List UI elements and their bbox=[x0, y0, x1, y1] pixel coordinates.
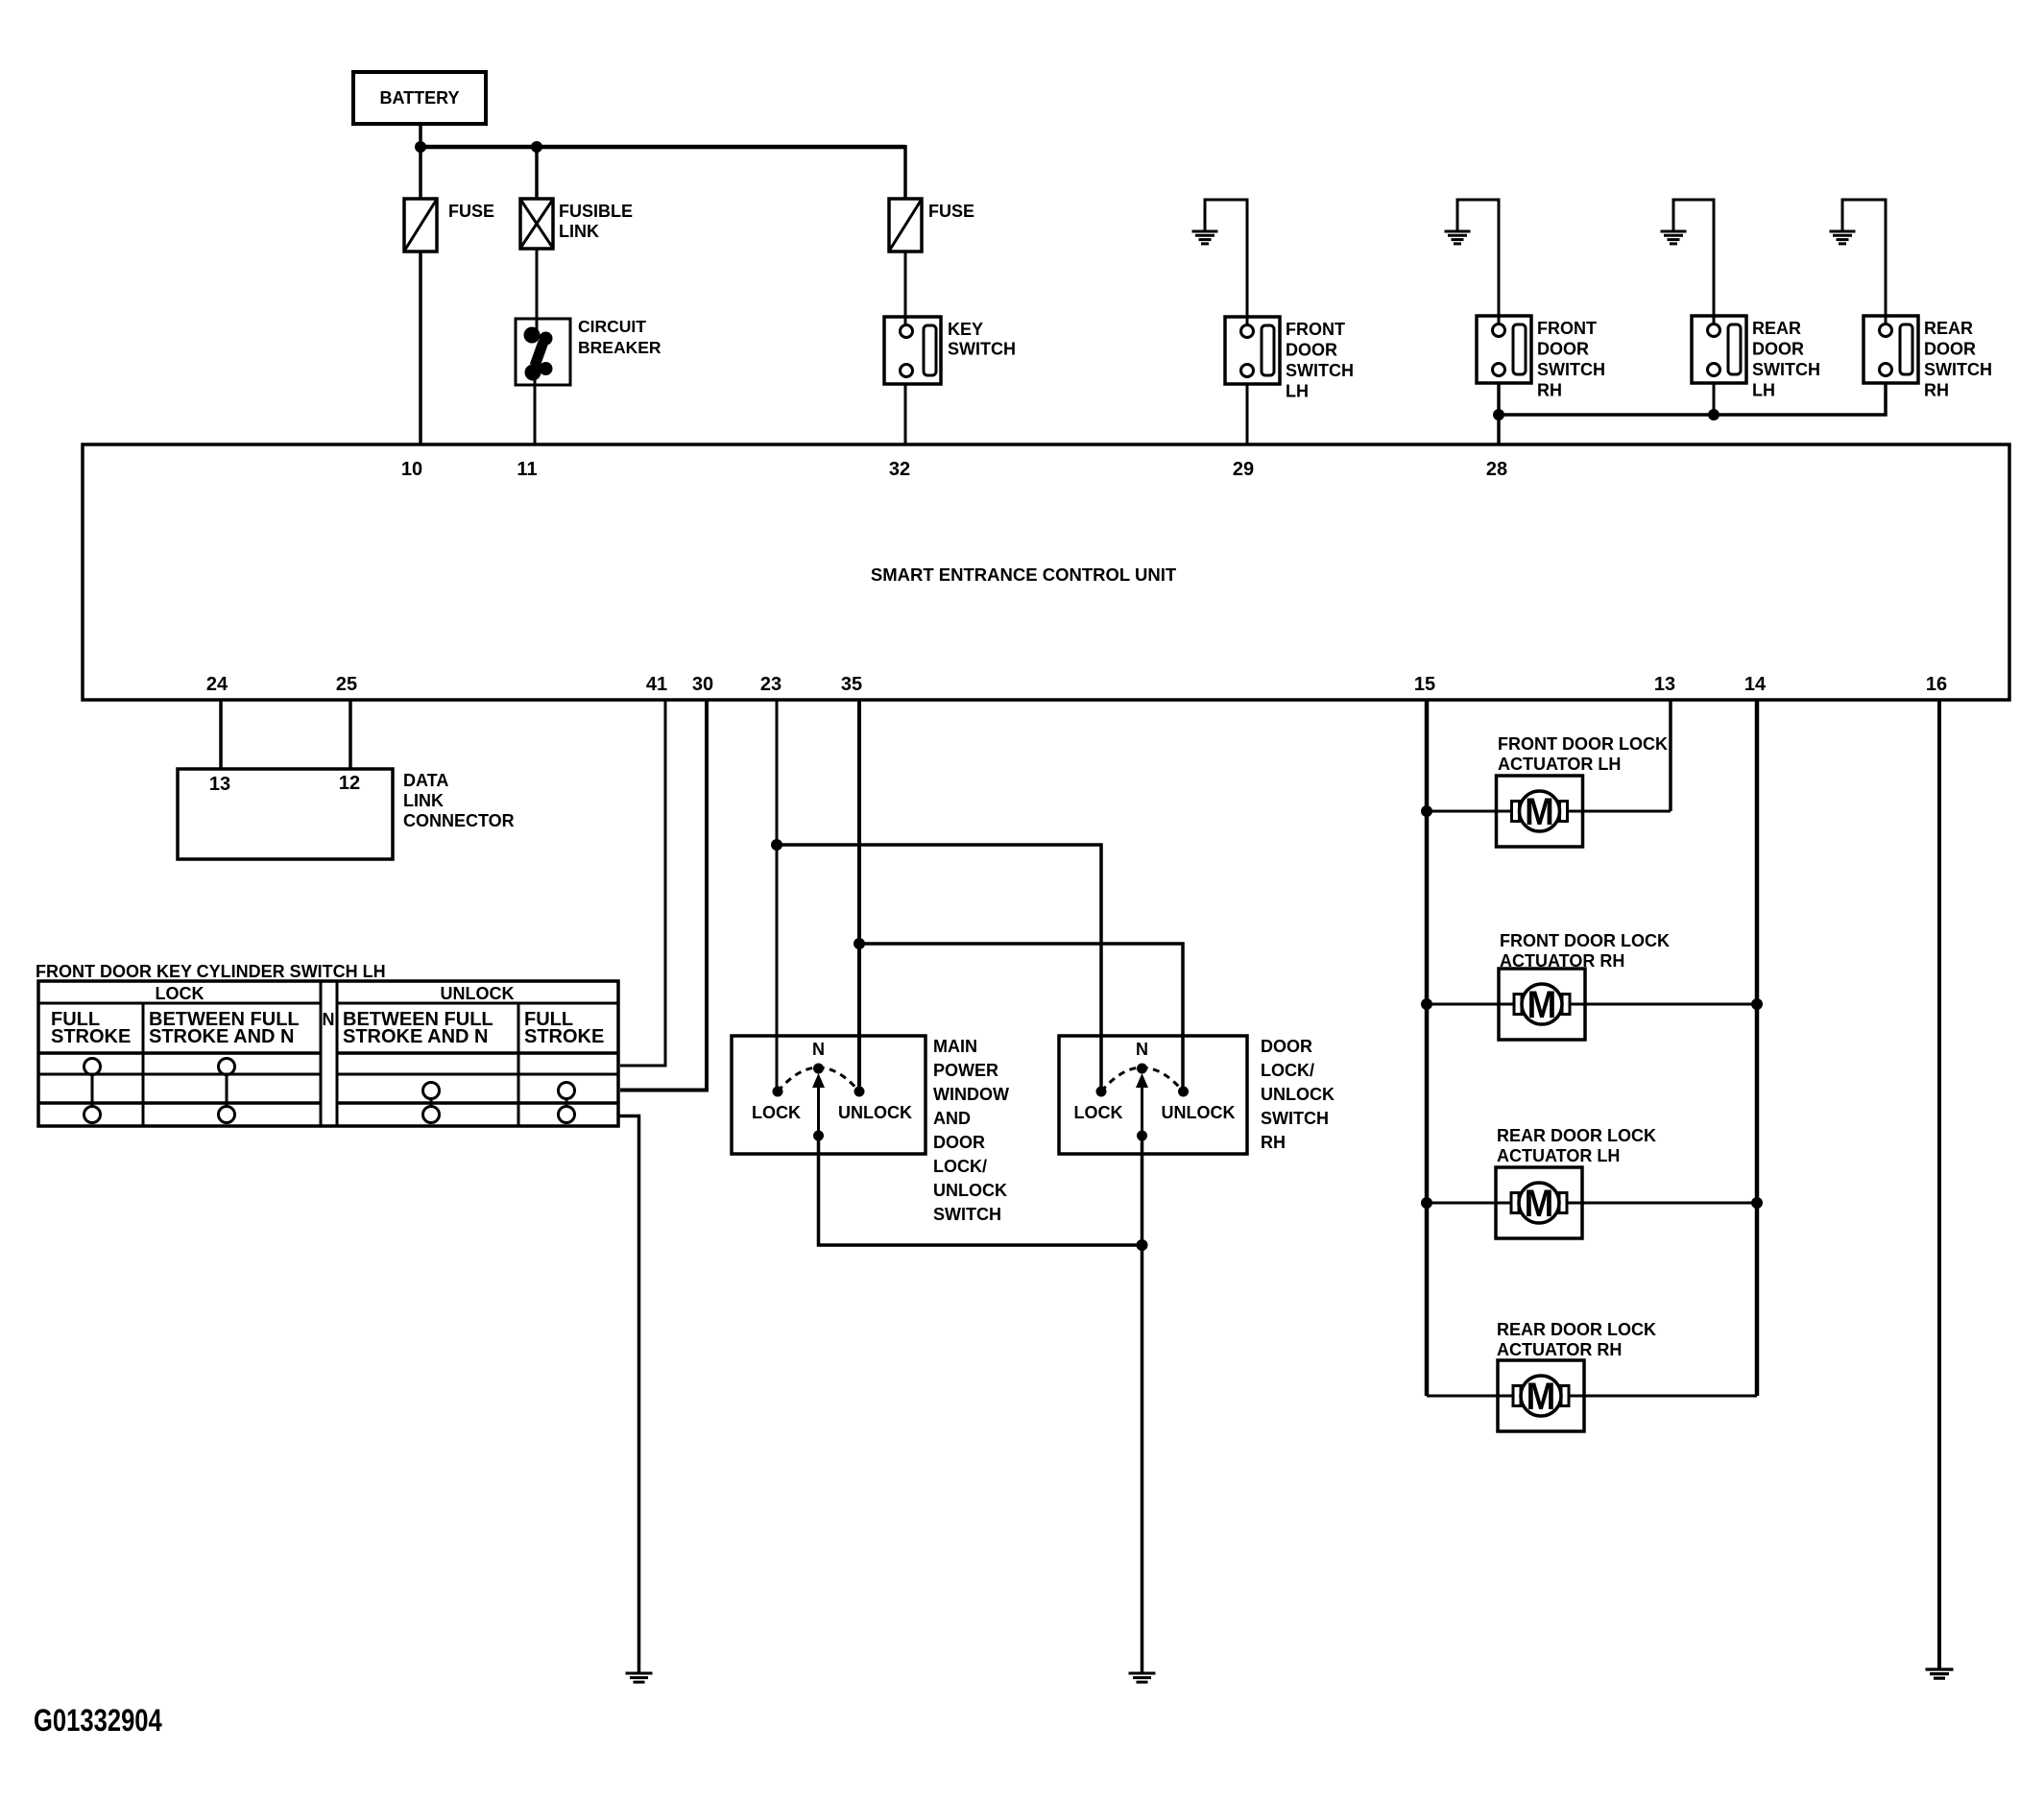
svg-text:32: 32 bbox=[889, 459, 910, 480]
svg-text:RH: RH bbox=[1537, 381, 1562, 400]
node rail15 row2 bbox=[1421, 998, 1432, 1010]
svg-text:DOOR: DOOR bbox=[1752, 340, 1804, 359]
wire contact link unlock col1 bbox=[430, 1099, 433, 1107]
wire pin 15 rail bbox=[1425, 700, 1430, 1396]
svg-text:BREAKER: BREAKER bbox=[578, 338, 661, 357]
node door switch bus B bbox=[1708, 409, 1719, 420]
wire pin 13 to actuator 1 bbox=[1669, 700, 1672, 811]
key switch S1 bbox=[884, 317, 941, 384]
wire bus to fuse F2 bbox=[903, 145, 907, 199]
svg-text:STROKE AND N: STROKE AND N bbox=[149, 1026, 294, 1047]
wire pin 30 to key cylinder row2 bbox=[620, 700, 707, 1091]
wire pin 35 to main switch unlock bbox=[857, 700, 861, 1091]
front door switch LH bbox=[1225, 317, 1280, 384]
svg-text:FUSE: FUSE bbox=[928, 202, 974, 221]
contact full-stroke unlock row3 bbox=[559, 1107, 575, 1123]
wire front door switch LH to pin 29 bbox=[1246, 384, 1249, 444]
svg-text:FRONT DOOR LOCK: FRONT DOOR LOCK bbox=[1498, 734, 1668, 754]
svg-text:29: 29 bbox=[1233, 459, 1254, 480]
svg-text:ACTUATOR RH: ACTUATOR RH bbox=[1497, 1340, 1622, 1359]
wire contact link lock col2 bbox=[226, 1075, 228, 1107]
svg-text:DOOR: DOOR bbox=[1286, 341, 1337, 360]
svg-text:KEY: KEY bbox=[948, 320, 983, 339]
svg-text:10: 10 bbox=[401, 459, 422, 480]
front door switch RH bbox=[1477, 316, 1531, 383]
svg-text:SWITCH: SWITCH bbox=[1752, 360, 1820, 379]
node rail14 row2 bbox=[1751, 998, 1763, 1010]
wire pin 23 to main switch lock bbox=[776, 700, 779, 1091]
svg-text:AND: AND bbox=[933, 1109, 971, 1128]
main power window and door lock/unlock switch S2 bbox=[732, 1036, 926, 1154]
wire actuator 2 row bbox=[1427, 1003, 1757, 1006]
contact full-stroke lock row3 bbox=[84, 1107, 101, 1123]
wire pin 41 to key cylinder row1 bbox=[620, 700, 665, 1066]
svg-text:SWITCH: SWITCH bbox=[933, 1205, 1001, 1224]
wire actuator 3 row bbox=[1427, 1202, 1757, 1205]
wire circuit breaker to pin 11 bbox=[534, 373, 537, 444]
svg-text:FRONT: FRONT bbox=[1537, 319, 1597, 338]
wire key switch to pin 32 bbox=[904, 384, 907, 444]
svg-text:LH: LH bbox=[1752, 381, 1775, 400]
svg-text:SMART ENTRANCE CONTROL UNIT: SMART ENTRANCE CONTROL UNIT bbox=[871, 564, 1177, 585]
svg-text:REAR: REAR bbox=[1924, 319, 1973, 338]
node fusible link junction bbox=[531, 141, 542, 153]
contact between unlock row2 bbox=[423, 1083, 440, 1099]
svg-text:DOOR: DOOR bbox=[1537, 340, 1589, 359]
circuit breaker CB1 bbox=[516, 319, 570, 385]
svg-text:UNLOCK: UNLOCK bbox=[933, 1181, 1007, 1200]
svg-text:UNLOCK: UNLOCK bbox=[441, 984, 515, 1003]
wire contact link unlock col2 bbox=[565, 1099, 568, 1107]
wire actuator 4 row bbox=[1427, 1395, 1757, 1398]
svg-text:11: 11 bbox=[517, 459, 537, 480]
svg-text:ACTUATOR LH: ACTUATOR LH bbox=[1497, 1146, 1620, 1165]
data link connector J1 bbox=[178, 769, 393, 859]
svg-text:N: N bbox=[323, 1010, 335, 1029]
node switch ground junction bbox=[1137, 1239, 1148, 1251]
rear door lock actuator RH M4 bbox=[1498, 1360, 1584, 1431]
svg-text:DOOR: DOOR bbox=[933, 1133, 985, 1152]
wire fuse F2 to key switch bbox=[904, 252, 907, 326]
svg-text:13: 13 bbox=[1654, 674, 1675, 695]
svg-text:N: N bbox=[1136, 1040, 1148, 1059]
contact between lock row3 bbox=[219, 1107, 235, 1123]
ground G-FDSRH bbox=[1457, 200, 1499, 325]
battery B1 bbox=[353, 72, 486, 124]
door lock/unlock switch RH S3 bbox=[1059, 1036, 1247, 1154]
wire branch to RH switch lock bbox=[777, 845, 1101, 1091]
svg-text:REAR DOOR LOCK: REAR DOOR LOCK bbox=[1497, 1126, 1656, 1145]
svg-text:DOOR: DOOR bbox=[1924, 340, 1976, 359]
svg-text:M: M bbox=[1525, 1183, 1554, 1226]
wire actuator 1 row bbox=[1427, 810, 1671, 813]
svg-text:ACTUATOR LH: ACTUATOR LH bbox=[1498, 755, 1621, 774]
wire bus to fusible link FL1 bbox=[535, 147, 539, 199]
rear door switch RH bbox=[1864, 316, 1918, 383]
wire RH switch to ground bbox=[1141, 1136, 1144, 1673]
svg-text:M: M bbox=[1527, 1376, 1556, 1419]
svg-text:BATTERY: BATTERY bbox=[380, 88, 460, 108]
svg-text:13: 13 bbox=[209, 774, 230, 795]
wire front door switch RH to pin 28 bbox=[1497, 383, 1501, 444]
node rail14 row3 bbox=[1751, 1197, 1763, 1209]
svg-text:LOCK/: LOCK/ bbox=[933, 1157, 987, 1176]
svg-text:41: 41 bbox=[646, 674, 667, 695]
svg-text:WINDOW: WINDOW bbox=[933, 1085, 1009, 1104]
wire pin 14 rail bbox=[1755, 700, 1760, 1396]
svg-text:DOOR: DOOR bbox=[1261, 1037, 1312, 1056]
ground G-RDSRH bbox=[1842, 200, 1886, 325]
svg-text:MAIN: MAIN bbox=[933, 1037, 977, 1056]
svg-text:15: 15 bbox=[1414, 674, 1435, 695]
ground G-pin16 bbox=[1926, 1667, 1954, 1670]
svg-text:POWER: POWER bbox=[933, 1061, 998, 1080]
rear door lock actuator LH M3 bbox=[1496, 1167, 1582, 1238]
svg-text:LOCK/: LOCK/ bbox=[1261, 1061, 1314, 1080]
wire key cylinder row3 to ground bbox=[618, 1116, 639, 1674]
wire battery to bus bbox=[419, 124, 422, 147]
wire power bus bbox=[421, 145, 905, 150]
wire bus to fuse F1 bbox=[419, 147, 422, 199]
svg-text:SWITCH: SWITCH bbox=[1537, 360, 1605, 379]
svg-text:DATA: DATA bbox=[403, 771, 448, 790]
ground G-lockswitches bbox=[1129, 1672, 1156, 1675]
contact full-stroke unlock row2 bbox=[559, 1083, 575, 1099]
svg-text:M: M bbox=[1525, 791, 1554, 834]
svg-text:LOCK: LOCK bbox=[752, 1103, 801, 1122]
svg-text:14: 14 bbox=[1744, 674, 1767, 695]
svg-text:STROKE AND N: STROKE AND N bbox=[343, 1026, 488, 1047]
svg-text:N: N bbox=[812, 1040, 825, 1059]
fuse F1 bbox=[404, 199, 437, 252]
svg-text:LINK: LINK bbox=[403, 791, 444, 810]
svg-text:SWITCH: SWITCH bbox=[1924, 360, 1992, 379]
contact between lock row1 bbox=[219, 1059, 235, 1075]
rear door switch LH bbox=[1692, 316, 1746, 383]
svg-text:23: 23 bbox=[760, 674, 782, 695]
wire fuse F1 to pin 10 bbox=[419, 252, 422, 444]
svg-text:RH: RH bbox=[1261, 1133, 1286, 1152]
front door lock actuator LH M1 bbox=[1497, 776, 1583, 847]
svg-text:G01332904: G01332904 bbox=[34, 1704, 162, 1738]
svg-text:FRONT DOOR LOCK: FRONT DOOR LOCK bbox=[1500, 931, 1670, 950]
svg-text:FUSE: FUSE bbox=[448, 202, 494, 221]
svg-text:LH: LH bbox=[1286, 382, 1309, 401]
svg-text:RH: RH bbox=[1924, 381, 1949, 400]
ground G-RDSLH bbox=[1673, 200, 1714, 325]
svg-text:STROKE: STROKE bbox=[524, 1026, 604, 1047]
node door switch bus A bbox=[1493, 409, 1504, 420]
smart entrance control unit U1 bbox=[83, 444, 2009, 700]
svg-text:30: 30 bbox=[692, 674, 713, 695]
svg-text:25: 25 bbox=[336, 674, 357, 695]
ground G-FDSLH bbox=[1205, 200, 1247, 326]
svg-text:SWITCH: SWITCH bbox=[1261, 1109, 1329, 1128]
svg-text:FUSIBLE: FUSIBLE bbox=[559, 202, 633, 221]
svg-text:FRONT DOOR KEY CYLINDER SWITCH: FRONT DOOR KEY CYLINDER SWITCH LH bbox=[36, 962, 386, 981]
node pin35 branch bbox=[854, 938, 865, 949]
wire contact link lock col1 bbox=[91, 1075, 94, 1107]
svg-text:FRONT: FRONT bbox=[1286, 320, 1345, 339]
svg-text:16: 16 bbox=[1926, 674, 1947, 695]
svg-text:LINK: LINK bbox=[559, 222, 599, 241]
svg-text:UNLOCK: UNLOCK bbox=[1162, 1103, 1236, 1122]
wire pin 25 to DLC bbox=[349, 700, 352, 769]
node battery bus junction bbox=[415, 141, 426, 153]
svg-text:28: 28 bbox=[1486, 459, 1507, 480]
svg-text:35: 35 bbox=[841, 674, 862, 695]
svg-text:24: 24 bbox=[206, 674, 228, 695]
contact between unlock row3 bbox=[423, 1107, 440, 1123]
wire rear door switch RH to bus bbox=[1499, 383, 1886, 415]
svg-text:SWITCH: SWITCH bbox=[948, 340, 1016, 359]
svg-text:REAR: REAR bbox=[1752, 319, 1801, 338]
contact full-stroke lock row1 bbox=[84, 1059, 101, 1075]
svg-text:LOCK: LOCK bbox=[156, 984, 204, 1003]
node rail15 row1 bbox=[1421, 805, 1432, 817]
svg-text:SWITCH: SWITCH bbox=[1286, 361, 1354, 380]
fuse F2 bbox=[889, 199, 922, 252]
svg-text:12: 12 bbox=[339, 773, 360, 794]
svg-text:UNLOCK: UNLOCK bbox=[1261, 1085, 1335, 1104]
svg-text:UNLOCK: UNLOCK bbox=[838, 1103, 912, 1122]
svg-text:CONNECTOR: CONNECTOR bbox=[403, 811, 515, 830]
wire branch to RH switch unlock bbox=[859, 944, 1183, 1091]
node pin23 branch bbox=[771, 839, 782, 851]
node rail15 row3 bbox=[1421, 1197, 1432, 1209]
wire pin 16 to ground bbox=[1937, 700, 1941, 1669]
front door lock actuator RH M2 bbox=[1499, 969, 1585, 1040]
svg-text:CIRCUIT: CIRCUIT bbox=[578, 317, 646, 336]
wire rear door switch LH to bus bbox=[1713, 383, 1716, 415]
svg-text:STROKE: STROKE bbox=[51, 1026, 131, 1047]
svg-text:LOCK: LOCK bbox=[1074, 1103, 1123, 1122]
svg-text:REAR DOOR LOCK: REAR DOOR LOCK bbox=[1497, 1320, 1656, 1339]
wire pin 24 to DLC bbox=[219, 700, 223, 769]
wire main switch to ground bus bbox=[819, 1136, 1142, 1245]
fusible link FL1 bbox=[520, 199, 553, 249]
front door key cylinder switch table bbox=[38, 981, 618, 1126]
svg-text:M: M bbox=[1527, 984, 1557, 1027]
wire fusible link to circuit breaker bbox=[536, 249, 539, 332]
ground G-keycylinder bbox=[626, 1672, 653, 1675]
